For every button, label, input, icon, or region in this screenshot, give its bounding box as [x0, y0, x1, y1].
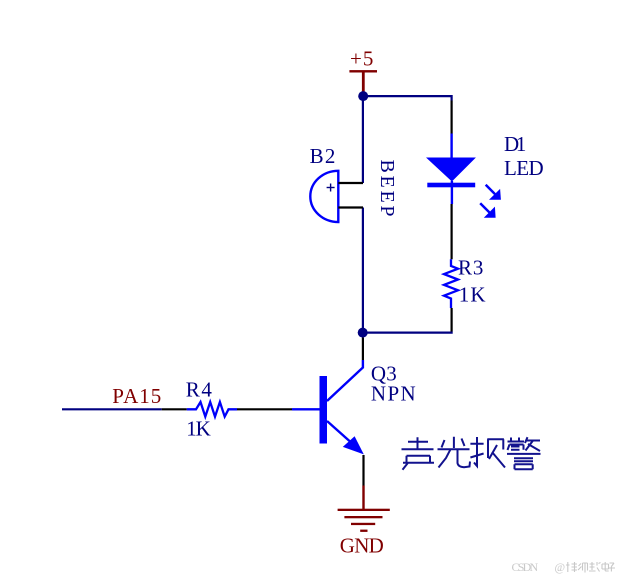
LED D1 cathode bar	[427, 183, 475, 188]
svg-text:1K: 1K	[459, 282, 486, 306]
LED D1 light arrow 1 head	[489, 189, 501, 200]
svg-text:BEEP: BEEP	[376, 160, 398, 217]
wire top right corner	[451, 95, 453, 101]
svg-text:CSDN: CSDN	[512, 560, 539, 574]
svg-text:LED: LED	[504, 156, 544, 180]
resistor R4 right pin	[237, 408, 292, 410]
ground bar 4	[360, 530, 367, 532]
resistor R3 body	[444, 259, 458, 308]
wire PA15 net	[62, 408, 162, 410]
transistor Q3 collector stub	[327, 360, 363, 401]
buzzer B2 bottom pin	[338, 206, 363, 208]
buzzer B2 body	[310, 171, 338, 222]
ground bar 1	[338, 509, 390, 511]
ground bar 2	[344, 516, 382, 518]
power +5 bar symbol	[349, 70, 377, 72]
ground stem	[362, 486, 364, 511]
wire bottom horizontal	[363, 332, 453, 334]
resistor R4 left pin	[162, 408, 187, 410]
LED D1 light arrow 1 shaft	[486, 185, 495, 194]
LED D1 cathode lead	[451, 181, 453, 204]
node bottom junction	[358, 328, 368, 338]
transistor Q3 base lead	[292, 408, 320, 410]
wire LED to R3 pin	[451, 204, 453, 259]
svg-text:PA15: PA15	[112, 384, 161, 408]
wire top horizontal	[363, 95, 452, 97]
buzzer B2 plus sign	[327, 184, 335, 192]
transistor Q3 emitter pin	[362, 455, 364, 486]
LED D1 top pin	[451, 101, 453, 134]
wire buzzer to bottom node	[362, 208, 364, 333]
resistor R4 body	[187, 402, 237, 417]
node top junction	[358, 91, 368, 101]
LED D1 light arrow 2 head	[484, 207, 496, 218]
svg-text:D1: D1	[504, 132, 526, 156]
transistor Q3 collector pin	[362, 338, 364, 361]
R3 bottom pin	[451, 308, 453, 332]
svg-text:R4: R4	[186, 377, 213, 401]
transistor Q3 base bar	[320, 376, 328, 444]
transistor Q3 emitter shaft	[327, 421, 350, 442]
svg-text:@: @	[555, 562, 566, 574]
svg-text:R3: R3	[458, 255, 483, 279]
transistor Q3 emitter arrow head	[343, 436, 364, 454]
svg-text:GND: GND	[340, 534, 384, 558]
LED D1 light arrow 2 shaft	[480, 203, 489, 212]
LED D1 anode lead	[450, 134, 452, 159]
LED D1 triangle	[426, 158, 476, 182]
svg-text:B2: B2	[310, 144, 336, 168]
watermark Chinese handle	[566, 562, 615, 573]
ground bar 3	[351, 523, 375, 525]
power +5 stem	[362, 72, 365, 94]
annotation Chinese text sound-light alarm	[402, 437, 541, 470]
svg-text:+5: +5	[350, 47, 373, 71]
buzzer B2 top pin	[338, 182, 363, 184]
svg-text:1K: 1K	[186, 417, 211, 441]
wire top node to buzzer	[362, 96, 364, 183]
svg-text:NPN: NPN	[371, 381, 416, 405]
